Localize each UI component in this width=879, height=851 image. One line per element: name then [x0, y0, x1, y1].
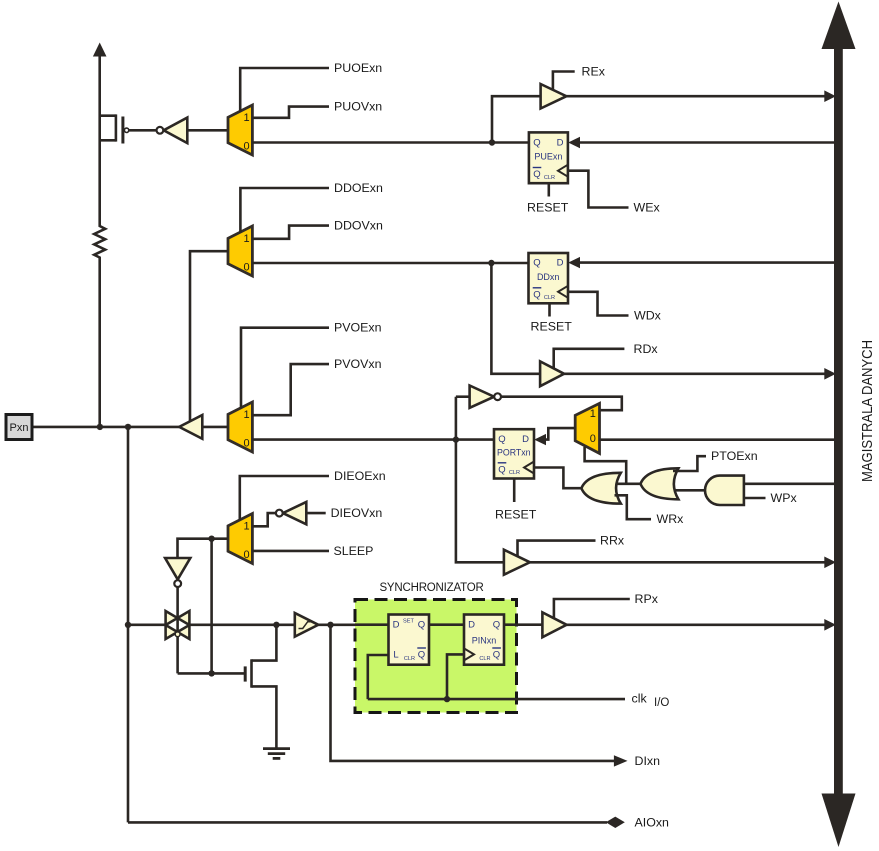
wire column to inverter U3 — [456, 395, 470, 398]
svg-text:AIOxn: AIOxn — [635, 815, 670, 829]
wire mux1 input 0 to PUExn Q — [252, 141, 529, 144]
wire analog column — [127, 427, 130, 823]
wire DIEOExn select — [240, 476, 329, 520]
svg-text:DIxn: DIxn — [635, 754, 661, 768]
wire schmitt to latch D — [355, 623, 389, 626]
wire schmitt input row — [128, 623, 167, 626]
flip-flop PORTxn — [494, 429, 534, 478]
node junction gate row — [208, 670, 214, 676]
wire mux2 input 0 to DDxn Q — [252, 262, 528, 265]
wire OR2 output to OR1 input — [616, 482, 642, 485]
wire PORTxn feedback column — [456, 397, 504, 563]
svg-text:RRx: RRx — [600, 534, 625, 548]
wire mux3 input 0 to PORTxn Q — [252, 438, 494, 441]
wire mux5 output to PORTxn D — [546, 428, 575, 440]
svg-text:0: 0 — [590, 433, 596, 445]
svg-text:L: L — [393, 650, 398, 661]
svg-text:CLR: CLR — [404, 656, 415, 662]
latch L1 — [389, 615, 430, 665]
inverter U1 (pull-up control, points left) — [157, 118, 188, 144]
wire PVOVxn to mux3 input 1 — [252, 364, 329, 415]
svg-text:clk: clk — [632, 692, 648, 706]
wire WPx to AND input — [744, 497, 766, 500]
buffer RPx — [542, 612, 566, 637]
svg-text:D: D — [557, 137, 564, 148]
svg-text:PVOVxn: PVOVxn — [334, 357, 382, 371]
svg-text:Q: Q — [493, 650, 500, 661]
AIOxn diamond — [606, 817, 625, 828]
svg-text:WDx: WDx — [634, 309, 662, 323]
svg-text:DIEOExn: DIEOExn — [334, 469, 386, 483]
svg-text:DDOVxn: DDOVxn — [334, 219, 383, 233]
wire clk row — [368, 698, 625, 701]
wire PUExn D from bus — [580, 141, 834, 144]
svg-text:SYNCHRONIZATOR: SYNCHRONIZATOR — [379, 582, 483, 594]
wire RPx label — [554, 599, 630, 619]
svg-text:D: D — [557, 258, 564, 269]
svg-text:PUOExn: PUOExn — [334, 61, 382, 75]
svg-text:CLR: CLR — [544, 295, 555, 301]
svg-text:D: D — [393, 620, 400, 631]
inverter U3 (toggle feedback, points right) — [470, 386, 501, 408]
pin pad Pxn — [6, 415, 32, 440]
node junction clamp drain — [273, 622, 279, 628]
VCC pull-up arrow — [93, 43, 107, 118]
schmitt trigger buffer — [295, 613, 319, 637]
flip-flop PUExn — [529, 132, 568, 183]
wire PVOExn select — [241, 328, 329, 409]
wire AIOxn — [128, 821, 607, 824]
wire inverter to mux1 output — [187, 129, 228, 132]
wire RESET stub PUExn — [547, 183, 550, 196]
wire REx label — [553, 72, 575, 91]
wire riser to clamp gate row — [210, 539, 213, 674]
svg-text:CLR: CLR — [544, 175, 555, 181]
node junction switch row — [125, 622, 131, 628]
and-gate G3 (points left) — [705, 476, 744, 505]
transistor Q1 (PMOS pull-up) — [100, 114, 129, 143]
transistor Q2 (NMOS clamp) — [245, 625, 276, 749]
svg-text:PTOExn: PTOExn — [711, 449, 758, 463]
svg-text:RESET: RESET — [527, 200, 569, 214]
svg-text:PINxn: PINxn — [472, 636, 497, 646]
wire RDx output to bus — [564, 372, 833, 375]
svg-text:RESET: RESET — [495, 507, 537, 521]
svg-text:REx: REx — [582, 65, 606, 79]
wire RPx output to bus — [567, 623, 833, 626]
or-gate G2 (points left) — [641, 468, 679, 499]
svg-text:0: 0 — [243, 262, 249, 274]
svg-text:1: 1 — [243, 409, 249, 421]
node junction PORTxn Q — [453, 436, 459, 442]
wire DDxn D from bus — [580, 261, 834, 264]
svg-text:Q: Q — [533, 169, 540, 180]
svg-text:DDxn: DDxn — [537, 272, 560, 282]
svg-text:PUOVxn: PUOVxn — [334, 100, 382, 114]
wire WRx to OR1 input — [615, 495, 652, 519]
svg-text:DIEOVxn: DIEOVxn — [331, 506, 383, 520]
wire RDx label — [554, 349, 625, 369]
svg-text:1: 1 — [243, 233, 249, 245]
svg-text:PORTxn: PORTxn — [497, 448, 531, 458]
svg-text:D: D — [522, 434, 529, 445]
svg-text:Q: Q — [533, 258, 540, 269]
svg-text:1: 1 — [243, 112, 249, 124]
svg-text:0: 0 — [243, 438, 249, 450]
wire riser to RDx buffer — [491, 263, 540, 374]
svg-text:WRx: WRx — [657, 512, 685, 526]
wire latch L control — [368, 655, 389, 699]
wire inverter to mux5 input 1 — [501, 397, 622, 411]
wire RRx label — [518, 541, 596, 556]
svg-text:Q: Q — [498, 434, 505, 445]
tri-state buffer (output driver, points left) — [179, 415, 202, 439]
inverter U4 (DIEOV, points left) — [276, 502, 306, 524]
wire latch Q to PINxn D — [429, 623, 464, 626]
wire WEx to PUExn clock — [568, 171, 629, 208]
wire PTOExn to OR2 input — [673, 456, 706, 471]
wire mux5 select — [585, 447, 627, 484]
svg-text:SET: SET — [403, 619, 414, 625]
mux M5 (PORTxn D select, points left mirrored) — [575, 403, 599, 453]
svg-text:Q: Q — [533, 137, 540, 148]
svg-text:CLR: CLR — [479, 656, 490, 662]
svg-text:1: 1 — [590, 408, 596, 420]
wire WDx to DDxn clock — [568, 292, 629, 316]
svg-text:0: 0 — [243, 141, 249, 153]
svg-text:I/O: I/O — [654, 697, 669, 709]
node junction REx riser — [489, 139, 495, 145]
wire clamp gate row — [178, 672, 244, 675]
buffer RRx — [504, 550, 530, 575]
wire switch to schmitt — [189, 623, 295, 626]
data bus MAGISTRALA DANYCH (vertical bus bar) — [822, 2, 856, 848]
svg-text:WEx: WEx — [634, 201, 661, 215]
svg-text:0: 0 — [243, 549, 249, 561]
svg-text:RDx: RDx — [634, 342, 659, 356]
wire mux2 output to tri-state enable — [190, 251, 228, 421]
wire PUOExn select — [240, 68, 329, 112]
node junction analog branch — [125, 424, 131, 430]
wire SLEEP to mux4 input 0 — [252, 550, 329, 553]
wire mux3 output to tri-state driver — [202, 426, 228, 429]
svg-text:PUExn: PUExn — [534, 152, 562, 162]
svg-text:PVOExn: PVOExn — [334, 321, 382, 335]
wire AND output to OR2 input — [675, 489, 707, 492]
svg-text:Q: Q — [498, 464, 505, 475]
svg-text:WPx: WPx — [771, 491, 798, 505]
svg-text:Q: Q — [533, 289, 540, 300]
ground — [263, 749, 290, 759]
wire riser to REx buffer — [492, 96, 541, 142]
wire inverter to mux4 input 1 — [252, 513, 276, 526]
svg-text:1: 1 — [243, 521, 249, 533]
buffer RDx — [540, 361, 564, 386]
wire PUOVxn to mux1 input 1 — [252, 107, 329, 118]
wire mux4 output — [178, 539, 229, 558]
wire Pxn row — [32, 426, 179, 429]
node junction pull-up — [97, 424, 103, 430]
mux M4 (digital input enable DIEOE) — [228, 514, 252, 564]
wire PINxn Q to RPx buffer — [504, 623, 542, 626]
svg-text:SLEEP: SLEEP — [334, 544, 374, 558]
flip-flop PINxn — [464, 615, 504, 665]
wire schmitt output to synchronizer — [318, 623, 389, 626]
wire DIEOVxn label to inverter — [306, 512, 325, 515]
wire OR1 output to PORTxn clock — [534, 468, 582, 489]
svg-text:Q: Q — [418, 620, 425, 631]
node junction sleep clamp — [208, 536, 214, 542]
wire DDOVxn to mux2 input 1 — [252, 226, 329, 239]
svg-text:Q: Q — [418, 650, 425, 661]
analog switch (pass gate) — [166, 611, 190, 639]
mux M3 (port value PVOE) — [228, 402, 252, 452]
wire DIxn — [331, 625, 616, 761]
flip-flop DDxn — [529, 253, 569, 303]
or-gate G1 (points left) — [581, 473, 620, 504]
svg-text:Q: Q — [493, 620, 500, 631]
svg-text:DDOExn: DDOExn — [334, 181, 383, 195]
wire RRx output to bus — [530, 561, 833, 564]
mux M2 (direction DDOE) — [228, 226, 252, 276]
svg-text:MAGISTRALA DANYCH: MAGISTRALA DANYCH — [858, 340, 875, 482]
resistor R1 (pull-up) — [94, 117, 105, 427]
node junction RDx riser — [488, 260, 494, 266]
inverter U5 (points down) — [165, 558, 190, 587]
svg-text:CLR: CLR — [509, 470, 520, 476]
svg-text:D: D — [468, 620, 475, 631]
node junction DIxn branch — [327, 622, 333, 628]
switch control bubble — [175, 632, 180, 637]
node junction clk — [444, 696, 450, 702]
wire AND input from bus — [744, 482, 834, 485]
svg-text:RESET: RESET — [531, 319, 573, 333]
wire DDOExn select — [240, 188, 329, 233]
wire REx output to bus — [566, 95, 833, 98]
wire RESET stub PORTxn — [513, 479, 516, 503]
mux M1 (pull-up enable PUOE) — [228, 105, 252, 155]
svg-text:RPx: RPx — [635, 592, 659, 606]
wire mux5 input 0 from bus — [600, 438, 835, 441]
wire PMOS gate to inverter — [129, 129, 156, 132]
synchronizer box — [355, 600, 517, 713]
wire RESET stub DDxn — [548, 303, 551, 316]
buffer REx — [541, 84, 567, 109]
wire switch control — [176, 587, 179, 673]
wire clk to PINxn clock — [447, 654, 464, 699]
svg-text:Pxn: Pxn — [10, 422, 29, 434]
